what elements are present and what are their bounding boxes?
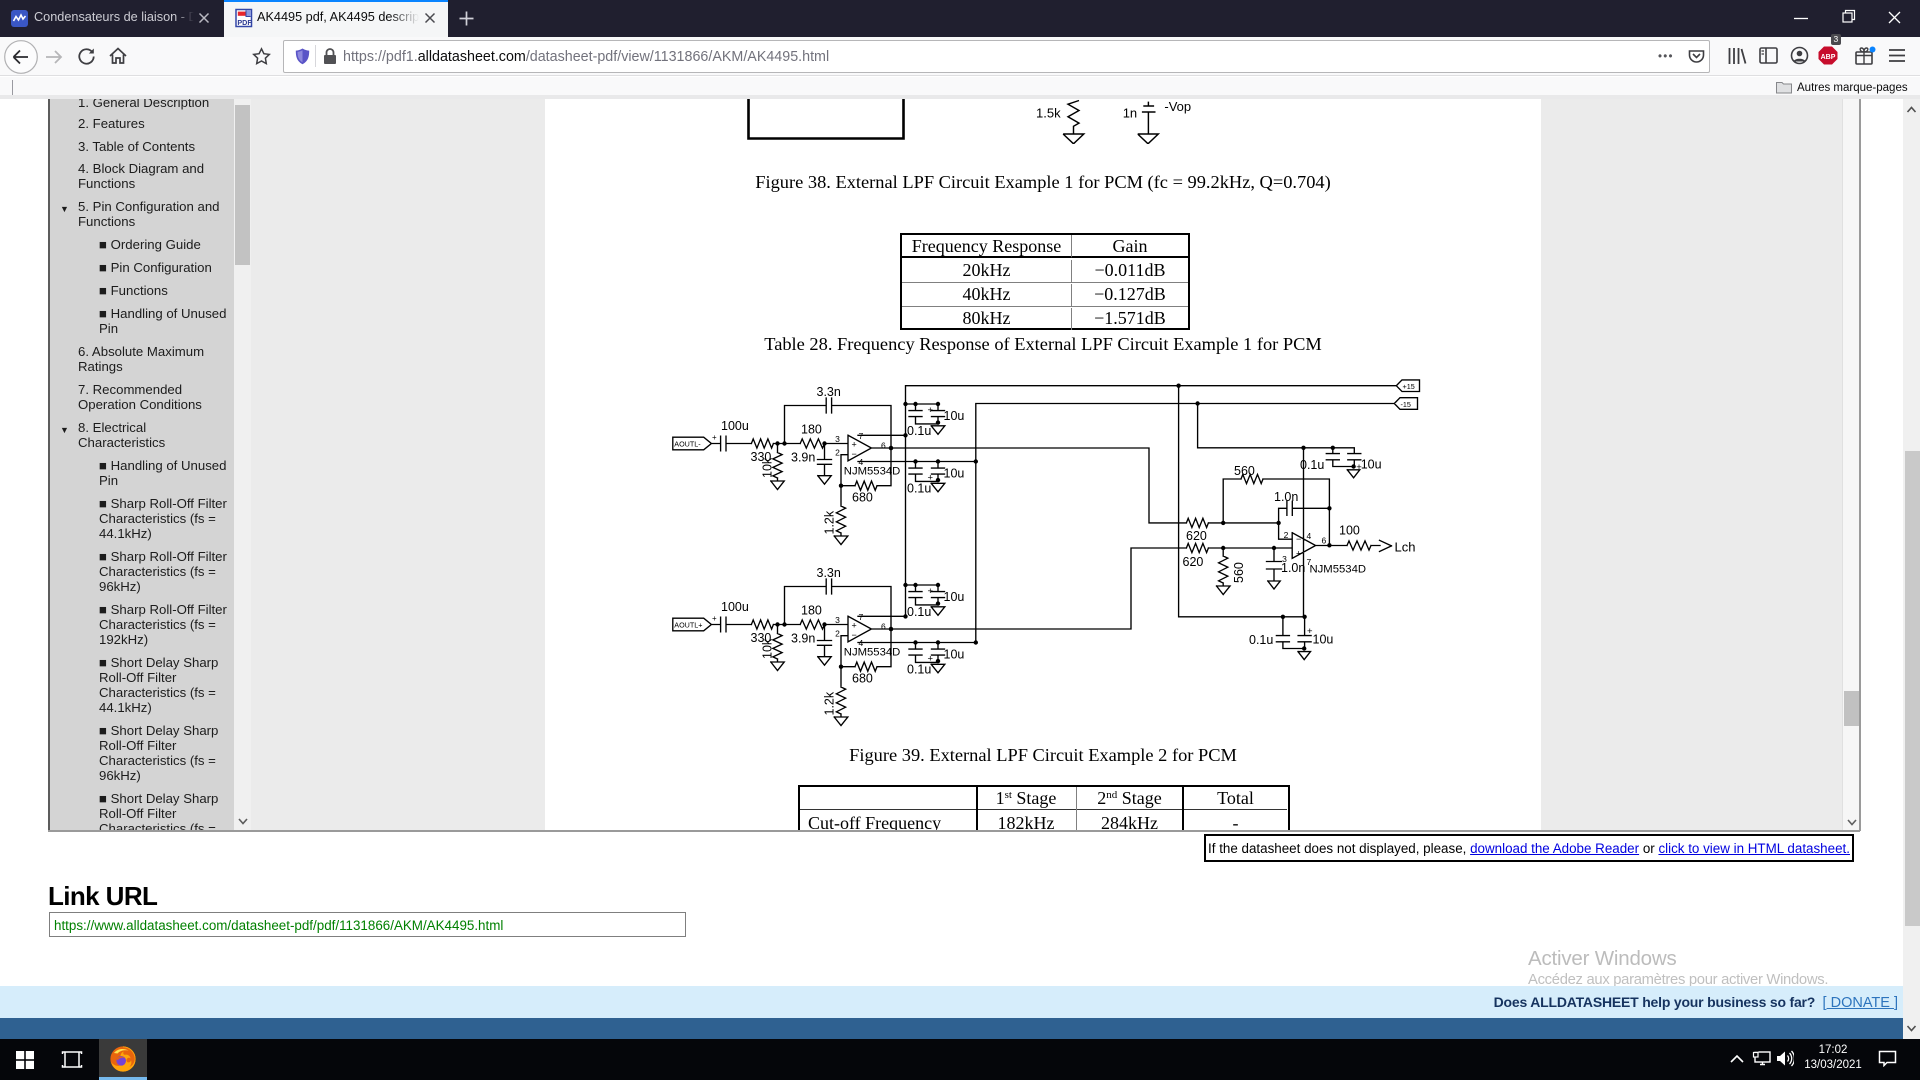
svg-text:10u: 10u bbox=[944, 409, 965, 423]
svg-text:+: + bbox=[852, 621, 857, 631]
svg-text:0.1u: 0.1u bbox=[907, 605, 931, 619]
svg-text:+: + bbox=[712, 433, 717, 442]
svg-text:PDF: PDF bbox=[237, 18, 252, 27]
svg-text:NJM5534D: NJM5534D bbox=[844, 466, 901, 478]
svg-text:1.2k: 1.2k bbox=[823, 691, 837, 715]
svg-text:0.1u: 0.1u bbox=[907, 663, 931, 677]
svg-text:0.1u: 0.1u bbox=[907, 424, 931, 438]
svg-text:3.3n: 3.3n bbox=[817, 385, 841, 399]
svg-text:0.1u: 0.1u bbox=[1300, 458, 1324, 472]
svg-text:10u: 10u bbox=[1313, 633, 1334, 647]
svg-text:-Vop: -Vop bbox=[1164, 99, 1191, 114]
svg-text:+: + bbox=[852, 440, 857, 450]
svg-text:1.0n: 1.0n bbox=[1274, 490, 1298, 504]
svg-text:560: 560 bbox=[1232, 562, 1246, 583]
svg-text:+: + bbox=[928, 586, 934, 597]
svg-text:2: 2 bbox=[835, 629, 840, 639]
svg-text:6: 6 bbox=[1322, 536, 1327, 546]
svg-text:330: 330 bbox=[751, 450, 772, 464]
svg-text:2: 2 bbox=[835, 448, 840, 458]
svg-text:560: 560 bbox=[1234, 464, 1255, 478]
svg-text:680: 680 bbox=[852, 491, 873, 505]
svg-text:10u: 10u bbox=[944, 590, 965, 604]
svg-text:10u: 10u bbox=[944, 648, 965, 662]
svg-text:3.9n: 3.9n bbox=[791, 632, 815, 646]
svg-text:6: 6 bbox=[881, 441, 886, 451]
svg-text:3.3n: 3.3n bbox=[817, 566, 841, 580]
svg-text:180: 180 bbox=[801, 423, 822, 437]
svg-text:1.2k: 1.2k bbox=[823, 510, 837, 534]
svg-text:-15: -15 bbox=[1401, 400, 1411, 409]
svg-text:100u: 100u bbox=[721, 419, 749, 433]
svg-text:+15: +15 bbox=[1403, 382, 1415, 391]
svg-text:3: 3 bbox=[835, 434, 840, 444]
svg-text:620: 620 bbox=[1186, 529, 1207, 543]
svg-text:3: 3 bbox=[835, 615, 840, 625]
svg-text:3.9n: 3.9n bbox=[791, 451, 815, 465]
svg-text:10u: 10u bbox=[944, 467, 965, 481]
svg-text:+: + bbox=[712, 614, 717, 623]
svg-text:680: 680 bbox=[852, 672, 873, 686]
svg-text:330: 330 bbox=[751, 631, 772, 645]
svg-text:0.1u: 0.1u bbox=[1249, 633, 1273, 647]
svg-text:2: 2 bbox=[1284, 530, 1289, 540]
svg-text:−: − bbox=[1296, 534, 1301, 544]
svg-text:180: 180 bbox=[801, 604, 822, 618]
svg-text:6: 6 bbox=[881, 622, 886, 632]
svg-text:−: − bbox=[852, 449, 857, 459]
svg-text:+: + bbox=[928, 405, 934, 416]
svg-text:3: 3 bbox=[1282, 554, 1287, 564]
svg-text:AOUTL+: AOUTL+ bbox=[674, 620, 702, 629]
svg-text:7: 7 bbox=[859, 431, 864, 441]
svg-text:−: − bbox=[852, 630, 857, 640]
svg-text:Lch: Lch bbox=[1395, 540, 1416, 555]
svg-text:+: + bbox=[1296, 549, 1301, 559]
svg-text:100u: 100u bbox=[721, 600, 749, 614]
svg-text:1.5k: 1.5k bbox=[1036, 106, 1061, 121]
svg-text:AOUTL-: AOUTL- bbox=[674, 439, 701, 448]
svg-text:1n: 1n bbox=[1123, 106, 1137, 121]
svg-text:NJM5534D: NJM5534D bbox=[1310, 564, 1367, 576]
svg-text:ABP: ABP bbox=[1821, 54, 1836, 61]
svg-text:10u: 10u bbox=[1361, 458, 1382, 472]
svg-text:7: 7 bbox=[859, 612, 864, 622]
svg-text:NJM5534D: NJM5534D bbox=[844, 647, 901, 659]
svg-text:4: 4 bbox=[1307, 531, 1312, 541]
svg-text:620: 620 bbox=[1183, 555, 1204, 569]
svg-text:100: 100 bbox=[1339, 524, 1360, 538]
svg-text:0.1u: 0.1u bbox=[907, 482, 931, 496]
